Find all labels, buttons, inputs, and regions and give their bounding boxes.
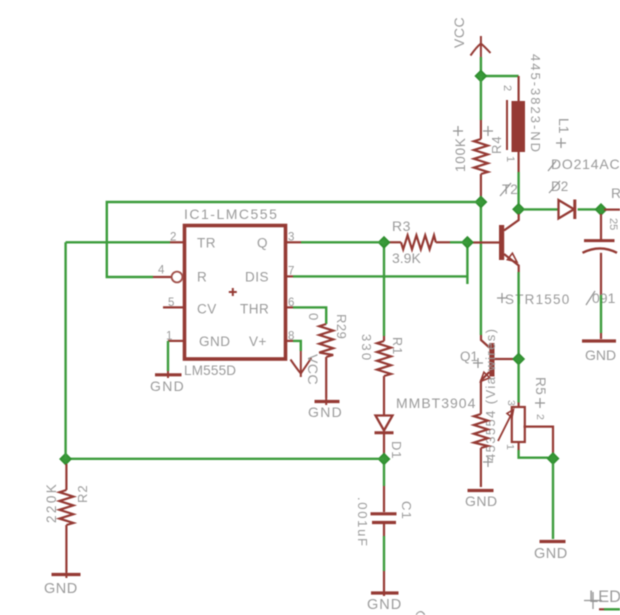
transistor Q1 <box>481 335 514 383</box>
pin 1 <box>168 340 184 342</box>
IC1 box <box>185 226 286 360</box>
svg-text:R2: R2 <box>75 484 90 503</box>
capacitor C2 <box>583 214 618 295</box>
wire node B to D2 <box>524 208 559 210</box>
svg-text:STR1550: STR1550 <box>505 292 570 307</box>
wire bottom horizontal <box>66 458 384 460</box>
resistor R29 <box>319 324 333 398</box>
svg-text:VCC: VCC <box>305 354 321 385</box>
svg-text:1: 1 <box>504 156 516 162</box>
svg-text:GND: GND <box>308 404 343 420</box>
wire left vertical <box>64 242 66 459</box>
svg-text:25: 25 <box>607 218 619 230</box>
node C (D2 cathode junction) <box>578 208 596 210</box>
svg-text:091: 091 <box>592 290 616 306</box>
svg-text:4: 4 <box>158 265 165 277</box>
pin 6 <box>286 306 293 308</box>
svg-text:330: 330 <box>359 334 374 362</box>
wire DIS <box>293 275 467 277</box>
pin 5 <box>163 306 184 308</box>
pin 7 <box>286 275 293 277</box>
node A (R4 bottom junction) <box>480 202 482 335</box>
svg-text:220K: 220K <box>44 482 59 523</box>
resistor R4 <box>474 76 488 197</box>
svg-text:VCC: VCC <box>451 17 467 48</box>
node H (Q1 base junction) <box>513 354 524 365</box>
svg-text:2: 2 <box>534 414 546 420</box>
svg-text:GND: GND <box>150 378 185 394</box>
ground (R29) <box>315 400 340 403</box>
svg-text:GND: GND <box>199 334 231 349</box>
ground (Q1 emitter) <box>468 489 494 492</box>
node G (left junction) <box>60 454 71 465</box>
wire bottom right <box>599 608 604 610</box>
diode D2 <box>559 200 575 220</box>
svg-text:Q1: Q1 <box>460 349 478 364</box>
svg-text:GND: GND <box>44 581 78 597</box>
svg-text:LM555D: LM555D <box>184 363 236 378</box>
svg-text:THR: THR <box>240 302 269 317</box>
resistor R1 <box>377 336 391 415</box>
svg-text:TR: TR <box>197 236 216 251</box>
resistor Q1 emitter <box>474 383 488 487</box>
svg-text:R: R <box>197 270 207 285</box>
ground (IC pin1) <box>155 373 182 376</box>
svg-text:445-3823-ND: 445-3823-ND <box>528 54 543 154</box>
node B (L1 bottom junction) <box>517 152 519 172</box>
svg-text:453554 (Via wires): 453554 (Via wires) <box>483 328 498 461</box>
node VCC junction <box>476 71 487 82</box>
node I (R5/GND junction) <box>548 453 559 464</box>
svg-text:5: 5 <box>168 297 174 309</box>
svg-text:D1: D1 <box>389 441 404 459</box>
wire T2 emitter down <box>517 272 519 354</box>
pin 3 <box>286 241 301 243</box>
svg-text:Q: Q <box>257 236 268 251</box>
ground (C1) <box>371 591 399 594</box>
wire pin1 to ground <box>167 341 169 371</box>
svg-text:V+: V+ <box>249 334 267 349</box>
svg-text:2: 2 <box>501 85 513 91</box>
svg-text:R3: R3 <box>392 218 411 234</box>
pin 2 <box>66 241 170 243</box>
capacitor C1 <box>371 464 397 596</box>
svg-text:8: 8 <box>288 331 294 343</box>
svg-text:6: 6 <box>288 297 294 309</box>
ground (R5 node) <box>540 540 566 543</box>
svg-text:DO214AC: DO214AC <box>551 156 620 172</box>
ground (R2) <box>52 573 81 576</box>
svg-text:2: 2 <box>170 232 176 244</box>
svg-text:L1: L1 <box>556 118 572 134</box>
svg-text:.001uF: .001uF <box>355 497 370 548</box>
wire top loop to pin 4 <box>107 202 481 277</box>
svg-text:R5: R5 <box>533 377 548 395</box>
svg-text:C1: C1 <box>399 501 414 520</box>
pin 4 bubble <box>153 276 172 278</box>
wire node C right <box>604 209 620 211</box>
svg-text:IC1-LMC555: IC1-LMC555 <box>184 206 278 222</box>
op-amp plus mark <box>229 288 237 296</box>
svg-text:R4: R4 <box>489 135 504 154</box>
svg-text:3: 3 <box>505 400 517 406</box>
svg-text:3: 3 <box>288 232 294 244</box>
svg-text:GND: GND <box>465 493 498 509</box>
VCC symbol top <box>471 36 491 76</box>
svg-text:100K: 100K <box>453 137 468 172</box>
svg-text:GND: GND <box>367 597 402 613</box>
wire R5 bottom to node I <box>519 450 548 458</box>
svg-text:CV: CV <box>197 302 217 317</box>
svg-text:7: 7 <box>288 266 294 278</box>
node E (pin3/R1 junction) <box>383 247 385 336</box>
inductor L1 <box>507 100 525 152</box>
pin 8 <box>286 340 293 342</box>
svg-text:1: 1 <box>504 444 516 450</box>
wire base node down to R5 <box>517 364 519 403</box>
node D (R3 right junction) <box>466 242 468 284</box>
wire C2 to GND <box>600 295 602 333</box>
svg-text:0: 0 <box>306 313 321 320</box>
svg-text:GND: GND <box>534 546 568 562</box>
resistor R3 <box>384 235 467 249</box>
potentiometer R5 <box>498 403 553 455</box>
transistor T2 <box>472 214 519 272</box>
wire node I to ground <box>552 463 554 539</box>
VCC symbol pin8 (down arrow) <box>291 351 312 377</box>
node F (bottom junction) <box>379 454 390 465</box>
diode D1 <box>375 416 394 455</box>
svg-text:1: 1 <box>166 331 172 343</box>
svg-text:R1: R1 <box>390 337 404 355</box>
svg-text:MMBT3904: MMBT3904 <box>396 395 476 411</box>
wire VCC to L1 <box>481 75 519 77</box>
svg-text:R: R <box>611 185 620 201</box>
ground (C2) <box>582 339 616 342</box>
svg-text:DIS: DIS <box>245 270 269 285</box>
svg-text:R29: R29 <box>334 314 349 339</box>
svg-text:3.9K: 3.9K <box>392 250 421 266</box>
resistor R2 <box>59 464 73 572</box>
svg-text:GND: GND <box>585 347 616 363</box>
